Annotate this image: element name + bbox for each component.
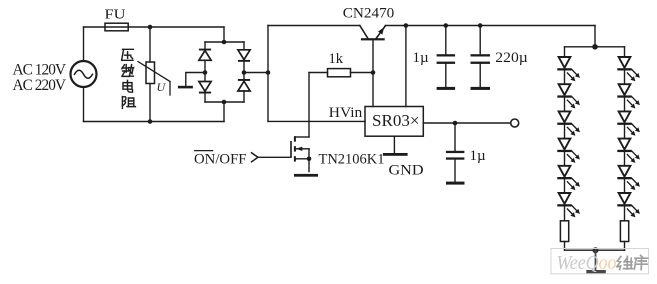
MOSFET Q2 TN2106K1 (258, 136, 318, 177)
node varistor top (148, 25, 153, 30)
svg-text:TN2106K1: TN2106K1 (319, 151, 385, 167)
wire C1 bottom lead (445, 64, 447, 87)
resistor R1 1k (309, 69, 373, 77)
wire C2 top lead (479, 26, 481, 55)
wire R1 right lead (351, 72, 374, 74)
pin SR03 top-right (405, 26, 407, 107)
bridge rectifier (199, 40, 250, 105)
AC source G1 (71, 61, 97, 87)
wire bridge top bar (205, 41, 244, 43)
LED Dleft5 (557, 166, 580, 193)
svg-text:AC 220V: AC 220V (13, 77, 67, 94)
capacitor C1 1u (437, 26, 456, 90)
node output cap (453, 121, 458, 126)
IC U1 SR03x (365, 107, 423, 137)
wire bridge bottom bar (205, 101, 244, 103)
node R1 right (371, 70, 376, 75)
svg-text:CN2470: CN2470 (343, 5, 395, 21)
pin SR03 top-left (372, 73, 374, 107)
terminal output circle (511, 119, 519, 127)
R1 body (328, 69, 351, 77)
C1 plates (437, 54, 456, 56)
svg-text:GND: GND (389, 163, 424, 179)
ground (source) (294, 174, 318, 177)
watermark box (551, 249, 649, 274)
ground (C2) (471, 87, 491, 90)
LED Dright5 (617, 166, 640, 193)
diode D2 (lower-left, points down) (199, 82, 211, 92)
ground (bridge minus) (178, 86, 193, 89)
svg-text:1µ: 1µ (470, 148, 487, 164)
LED Dright2 (617, 84, 640, 111)
varistor body (146, 62, 155, 84)
node rail-C1 (444, 23, 449, 28)
svg-text:SR03×: SR03× (372, 111, 420, 130)
diode D4 (lower-right, points up) (238, 79, 250, 81)
wire C2 bottom lead (479, 64, 481, 87)
label varistor text (ya min dian zu) (122, 49, 136, 108)
wire C3 top lead (454, 123, 456, 151)
LED Dright1 (617, 57, 640, 84)
wire C1 top lead (445, 26, 447, 55)
wire left branch lower (204, 94, 206, 103)
transistor Q1 CN2470 (360, 26, 386, 73)
svg-text:220µ: 220µ (495, 50, 528, 66)
wire source lead (296, 159, 309, 172)
sine symbol (75, 70, 93, 78)
Q1 collector lead (360, 26, 368, 39)
wire C3 bottom lead (454, 160, 456, 182)
wire R3 top lead (624, 207, 626, 221)
LED Dright4 (617, 139, 640, 166)
fuse FU (105, 23, 128, 31)
wire AC source top lead (83, 27, 85, 61)
watermark text weiku (617, 255, 648, 269)
node HV (266, 70, 271, 75)
svg-text:WeeQoo: WeeQoo (557, 253, 617, 274)
wire bridge output to node (244, 72, 268, 74)
svg-text:ON/OFF: ON/OFF (194, 151, 247, 167)
wire gate lead (258, 156, 290, 158)
node source (307, 157, 312, 162)
resistor R3 (right string) (620, 207, 628, 250)
wire drain lead (295, 136, 309, 138)
svg-text:1k: 1k (329, 51, 344, 67)
ground (C1) (437, 87, 456, 90)
ground (SR03) (383, 153, 408, 156)
wire right branch mid (243, 62, 245, 79)
wire bridge bottom feed (223, 102, 225, 122)
wire Q1 base lead (372, 40, 374, 72)
node bridge top (222, 40, 227, 45)
node LED bottom (593, 247, 599, 253)
capacitor C3 1u (output) (446, 123, 465, 185)
ground (C3) (446, 182, 465, 185)
varistor diagonal stroke (138, 62, 170, 82)
wire rail to LED header (594, 26, 596, 47)
wire R3 bottom lead (624, 242, 626, 251)
R2 body (560, 221, 568, 242)
Q1 emitter arrowhead (378, 27, 384, 34)
svg-text:HVin: HVin (329, 105, 363, 121)
wire R1 left lead (309, 72, 328, 74)
wire HV vertical riser (267, 26, 269, 122)
svg-text:FU: FU (105, 7, 126, 22)
node bridge left mid (203, 70, 208, 75)
wire bridge left-mid to ground (186, 73, 205, 86)
arrow input on/off (252, 153, 259, 162)
C3 plates (446, 151, 465, 153)
wire left branch upper (204, 42, 206, 50)
Q1 base bar (361, 38, 385, 40)
wire top rail right of transistor (385, 25, 595, 27)
wire varistor top lead (149, 27, 151, 62)
node bridge bottom (222, 100, 227, 105)
wire SR03 output (423, 122, 510, 124)
node rail-C2 (478, 23, 483, 28)
Q1 emitter lead (376, 26, 385, 38)
resistor R2 (left string) (560, 207, 568, 250)
wire LED ground lead (595, 250, 597, 270)
node LED bus (592, 44, 598, 50)
LED Dleft4 (557, 139, 580, 166)
wire 1k to drain riser (308, 73, 310, 138)
svg-text:U: U (157, 80, 167, 94)
wire R2 bottom lead (564, 242, 566, 251)
wire bottom-left rail (84, 121, 225, 123)
varistor RV (138, 27, 170, 122)
node varistor bottom (148, 119, 153, 124)
R3 body (620, 221, 628, 242)
varistor diagonal tail (169, 82, 171, 96)
mosfet gate bar (290, 141, 292, 158)
C2 plates (471, 54, 491, 56)
AC source circle G1 (71, 61, 97, 87)
wire LED bottom bus (565, 249, 625, 251)
wire R2 top lead (564, 207, 566, 221)
wire AC source bottom lead (83, 87, 85, 122)
wire left branch mid (204, 60, 206, 81)
wire LED right stub (624, 47, 626, 58)
pin SR03 gnd (393, 136, 395, 153)
wire top-left rail (84, 26, 225, 28)
wire varistor bottom lead (149, 84, 151, 122)
svg-text:1µ: 1µ (413, 50, 430, 66)
LED Dright3 (617, 111, 640, 138)
wire HVin rail (268, 120, 365, 122)
ground (LED) (586, 270, 606, 273)
node bridge right mid (242, 70, 247, 75)
wire right branch lower (243, 91, 245, 102)
wire top rail to transistor (268, 25, 360, 27)
capacitor C2 220u (471, 26, 491, 90)
LED Dleft6 (557, 193, 580, 217)
LED Dleft1 (557, 57, 580, 84)
body arrow (296, 148, 309, 150)
mosfet channel segments (294, 136, 296, 142)
wire LED left stub (564, 47, 566, 58)
wire bridge top feed (223, 27, 225, 42)
node rail-SR03 (404, 23, 409, 28)
LED Dright6 (617, 193, 640, 217)
LED Dleft2 (557, 84, 580, 111)
wire right branch upper (243, 42, 245, 50)
LED Dleft3 (557, 111, 580, 138)
wire LED top bus (565, 46, 625, 48)
